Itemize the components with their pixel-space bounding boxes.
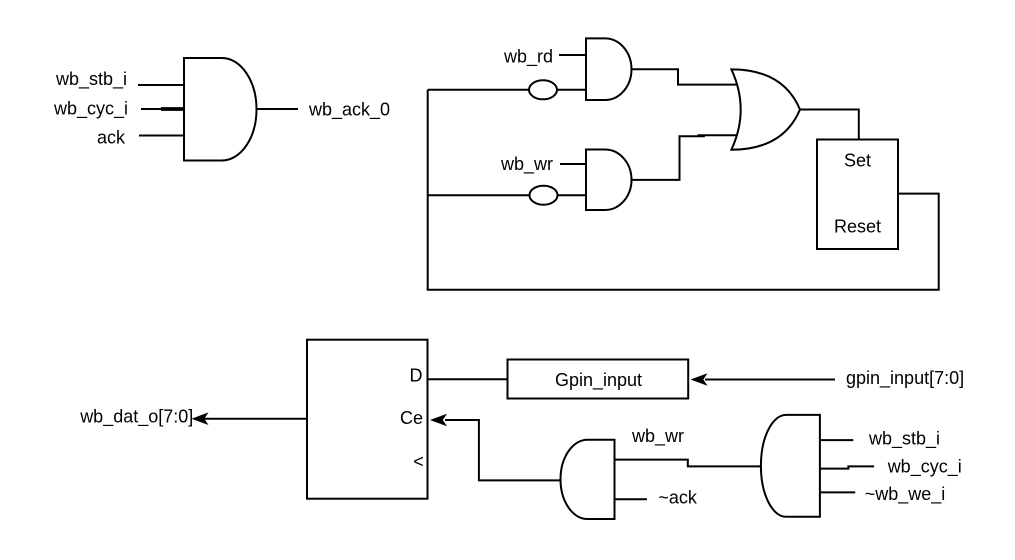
svg-text:wb_wr: wb_wr bbox=[500, 154, 553, 175]
svg-text:wb_ack_0: wb_ack_0 bbox=[308, 99, 390, 120]
svg-text:wb_dat_o[7:0]: wb_dat_o[7:0] bbox=[79, 407, 193, 428]
and gate U3 bbox=[586, 150, 632, 211]
wire wb_cyc_i to U9 bbox=[820, 466, 874, 468]
arrowhead Ce bbox=[430, 414, 447, 427]
set-reset box U5 bbox=[817, 140, 898, 250]
svg-text:wb_wr: wb_wr bbox=[631, 426, 684, 447]
wire ~wb_we_i to U9 bbox=[820, 491, 855, 493]
svg-text:<: < bbox=[413, 452, 424, 472]
wire wb_stb_i to U1 bbox=[138, 84, 184, 86]
arrowhead gpin_input bbox=[691, 373, 708, 386]
svg-text:wb_cyc_i: wb_cyc_i bbox=[887, 457, 962, 478]
svg-text:gpin_input[7:0]: gpin_input[7:0] bbox=[846, 368, 964, 389]
wire ack to U1 bbox=[139, 135, 184, 137]
and gate U9 (mirrored) bbox=[761, 415, 820, 517]
svg-text:Set: Set bbox=[844, 151, 871, 171]
wire wb_rd to U2 bbox=[559, 54, 586, 56]
wire gpin_input to box bbox=[705, 379, 835, 381]
svg-text:~wb_we_i: ~wb_we_i bbox=[865, 484, 946, 505]
arrowhead wb_dat_o bbox=[192, 412, 209, 425]
inverter bubble B2 bbox=[530, 186, 558, 205]
wire D input bbox=[428, 378, 508, 380]
wire to OR bottom input bbox=[698, 134, 741, 136]
wire net to bubble B2 bbox=[428, 194, 530, 196]
wire U4 output to SR box bbox=[800, 110, 859, 140]
svg-text:wb_cyc_i: wb_cyc_i bbox=[53, 99, 128, 120]
wire wb_cyc_i to U1 bbox=[141, 108, 184, 110]
wire wb_stb_i to U9 bbox=[820, 439, 853, 441]
wire wb_wr to U3 bbox=[560, 163, 586, 165]
and gate U8 (mirrored) bbox=[561, 440, 615, 519]
wire wb_wr net to U8 bbox=[615, 460, 761, 467]
svg-text:D: D bbox=[410, 366, 423, 386]
wire bubble B1 to U2 bbox=[557, 89, 586, 91]
svg-text:Ce: Ce bbox=[400, 408, 423, 428]
svg-text:Reset: Reset bbox=[834, 217, 881, 237]
svg-text:ack: ack bbox=[97, 128, 126, 148]
svg-text:wb_rd: wb_rd bbox=[503, 47, 553, 68]
wire net to bubble B1 bbox=[428, 89, 529, 91]
and gate U1 bbox=[184, 58, 257, 161]
wire U1 output bbox=[257, 108, 299, 110]
wire ~ack to U8 bbox=[615, 498, 648, 500]
svg-text:wb_stb_i: wb_stb_i bbox=[55, 69, 127, 90]
inverter bubble B1 bbox=[529, 80, 557, 99]
wire U2 output to OR bbox=[632, 69, 738, 84]
wire Ce input bbox=[445, 420, 560, 480]
and gate U2 bbox=[586, 38, 631, 100]
register box U6 bbox=[307, 340, 428, 499]
or gate U4 bbox=[731, 69, 800, 149]
wire SR feedback loop bbox=[428, 90, 939, 290]
wire bubble B2 to U3 bbox=[558, 194, 587, 196]
svg-text:Gpin_input: Gpin_input bbox=[555, 370, 642, 391]
svg-text:wb_stb_i: wb_stb_i bbox=[868, 429, 940, 450]
wire U3 output bbox=[632, 136, 706, 180]
gpin_input box U7 bbox=[508, 360, 689, 399]
wire wb_dat_o output bbox=[203, 418, 307, 420]
svg-text:~ack: ~ack bbox=[658, 488, 698, 508]
